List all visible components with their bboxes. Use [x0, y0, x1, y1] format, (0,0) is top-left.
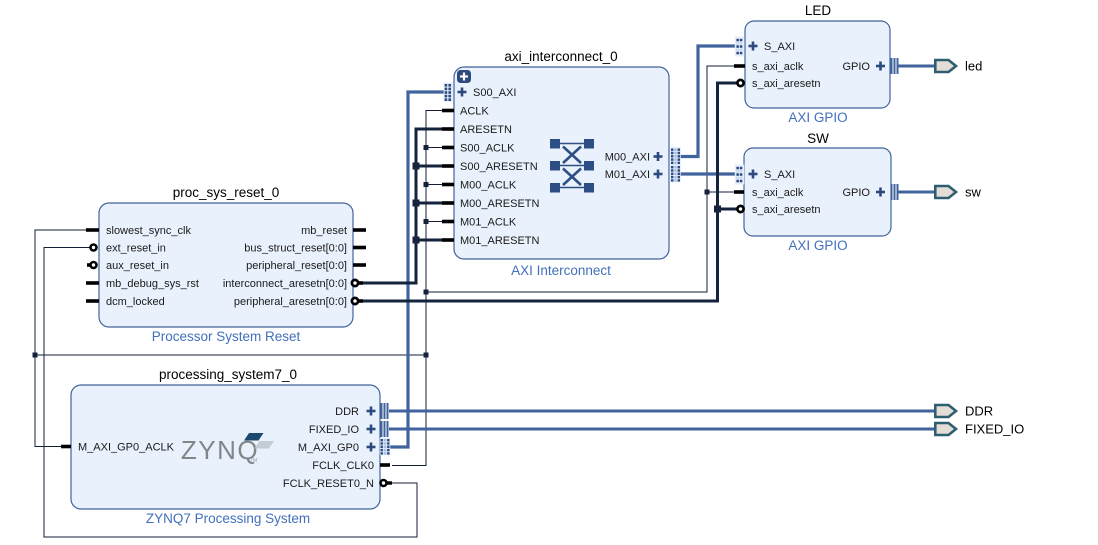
port M01_AXI [605, 165, 681, 182]
port LED GPIO [842, 58, 897, 74]
port S00_ACLK [442, 143, 515, 155]
wire FCLK_CLK0 clock net main run [35, 66, 738, 466]
svg-text:AXI GPIO: AXI GPIO [788, 110, 847, 125]
junction aresetn M01_ARESETN [413, 237, 420, 244]
svg-text:GPIO: GPIO [842, 187, 870, 199]
svg-text:FIXED_IO: FIXED_IO [965, 422, 1024, 437]
wire M_AXI_GP0 to S00_AXI interface [390, 92, 446, 447]
svg-text:FIXED_IO: FIXED_IO [309, 424, 360, 436]
block proc_sys_reset_0 [99, 185, 353, 344]
junction aresetn S00_ARESETN [413, 163, 420, 170]
svg-text:sw: sw [965, 185, 982, 200]
svg-text:ARESETN: ARESETN [460, 124, 512, 136]
port LED S_AXI [735, 37, 795, 57]
port interconnect_aresetn[0:0] [223, 278, 363, 290]
expand button [457, 70, 471, 83]
svg-text:GPIO: GPIO [842, 61, 870, 73]
port bus_struct_reset[0:0] [244, 243, 366, 255]
external port sw [935, 185, 981, 200]
svg-text:AXI Interconnect: AXI Interconnect [511, 263, 611, 278]
svg-text:FCLK_CLK0: FCLK_CLK0 [312, 460, 374, 472]
svg-text:s_axi_aclk: s_axi_aclk [752, 187, 804, 199]
junction clk M01_ACLK [424, 219, 429, 224]
port SW s_axi_aresetn [737, 204, 820, 216]
port M00_ARESETN [442, 198, 540, 210]
port FIXED_IO [309, 421, 388, 437]
svg-text:M00_AXI: M00_AXI [605, 152, 650, 164]
junction aresetn M00_ARESETN [413, 200, 420, 207]
svg-text:mb_debug_sys_rst: mb_debug_sys_rst [106, 278, 199, 290]
block SW [744, 131, 891, 253]
port SW GPIO [842, 184, 897, 200]
svg-text:M_AXI_GP0: M_AXI_GP0 [298, 442, 359, 454]
svg-text:ext_reset_in: ext_reset_in [106, 243, 166, 255]
block processing_system7_0 [71, 367, 380, 526]
port LED s_axi_aresetn [737, 78, 820, 90]
block LED [745, 3, 890, 125]
svg-text:s_axi_aresetn: s_axi_aresetn [752, 78, 821, 90]
svg-text:peripheral_aresetn[0:0]: peripheral_aresetn[0:0] [234, 296, 347, 308]
svg-text:led: led [965, 59, 982, 74]
wire FCLK_RESET0_N to ext_reset_in [44, 248, 417, 538]
wire M00_AXI to LED S_AXI interface [680, 46, 737, 157]
port FCLK_RESET0_N [283, 478, 392, 490]
port SW s_axi_aclk [734, 187, 804, 199]
svg-text:dcm_locked: dcm_locked [106, 296, 165, 308]
svg-text:M01_ARESETN: M01_ARESETN [460, 235, 540, 247]
wire interconnect_aresetn net [360, 129, 448, 283]
svg-text:bus_struct_reset[0:0]: bus_struct_reset[0:0] [244, 243, 347, 255]
port M01_ACLK [442, 217, 517, 229]
crossbar icon [550, 139, 594, 193]
junction aresetn SW s_axi_aresetn [714, 206, 721, 213]
svg-text:ZYNQ7 Processing System: ZYNQ7 Processing System [146, 511, 310, 526]
port M_AXI_GP0 [298, 438, 390, 455]
port ARESETN [442, 124, 512, 136]
port DDR [335, 403, 387, 419]
port SW S_AXI [735, 165, 795, 185]
svg-text:M00_ACLK: M00_ACLK [460, 180, 517, 192]
svg-text:s_axi_aresetn: s_axi_aresetn [752, 204, 821, 216]
junction clk branch left [424, 353, 429, 358]
svg-text:s_axi_aclk: s_axi_aclk [752, 61, 804, 73]
svg-text:LED: LED [805, 3, 832, 18]
wire DDR interface [389, 410, 934, 413]
junction clk slowest_sync_clk column [33, 353, 38, 358]
svg-text:processing_system7_0: processing_system7_0 [159, 367, 297, 382]
svg-text:aux_reset_in: aux_reset_in [106, 260, 169, 272]
wire FIXED_IO interface [389, 428, 934, 431]
block axi_interconnect_0 [454, 49, 669, 278]
svg-text:mb_reset: mb_reset [301, 225, 347, 237]
svg-text:axi_interconnect_0: axi_interconnect_0 [504, 49, 617, 64]
port FCLK_CLK0 [312, 460, 390, 472]
wire LED GPIO out [898, 65, 934, 68]
port S00_AXI [444, 83, 517, 102]
port dcm_locked [86, 296, 165, 308]
svg-text:M00_ARESETN: M00_ARESETN [460, 198, 540, 210]
port mb_debug_sys_rst [86, 278, 199, 290]
port mb_reset [301, 225, 366, 237]
svg-text:DDR: DDR [335, 406, 359, 418]
external port FIXED_IO [935, 422, 1024, 437]
port S00_ARESETN [442, 161, 538, 173]
wire peripheral_aresetn net [360, 83, 737, 301]
svg-text:FCLK_RESET0_N: FCLK_RESET0_N [283, 478, 374, 490]
port ACLK [442, 106, 489, 118]
svg-text:M01_AXI: M01_AXI [605, 169, 650, 181]
svg-text:slowest_sync_clk: slowest_sync_clk [106, 225, 191, 237]
port aux_reset_in [87, 260, 169, 272]
port slowest_sync_clk [86, 225, 191, 237]
svg-text:DDR: DDR [965, 404, 993, 419]
svg-text:S00_ARESETN: S00_ARESETN [460, 161, 538, 173]
external port DDR [935, 404, 993, 419]
port peripheral_aresetn[0:0] [234, 296, 363, 308]
svg-text:interconnect_aresetn[0:0]: interconnect_aresetn[0:0] [223, 278, 347, 290]
svg-text:S_AXI: S_AXI [764, 41, 795, 53]
port M00_ACLK [442, 180, 517, 192]
port ext_reset_in [91, 243, 166, 255]
port peripheral_reset[0:0] [246, 260, 366, 272]
svg-text:peripheral_reset[0:0]: peripheral_reset[0:0] [246, 260, 347, 272]
wire M01_AXI to SW S_AXI interface [680, 172, 737, 175]
port LED s_axi_aclk [734, 61, 804, 73]
svg-text:proc_sys_reset_0: proc_sys_reset_0 [173, 185, 280, 200]
svg-text:S00_ACLK: S00_ACLK [460, 143, 515, 155]
svg-text:SW: SW [807, 131, 829, 146]
svg-text:M01_ACLK: M01_ACLK [460, 217, 517, 229]
junction clk M00_ACLK [424, 182, 429, 187]
svg-text:AXI GPIO: AXI GPIO [788, 238, 847, 253]
zynq logo [181, 433, 274, 465]
junction clk branch right [424, 290, 429, 295]
svg-text:M_AXI_GP0_ACLK: M_AXI_GP0_ACLK [78, 442, 175, 454]
svg-text:S_AXI: S_AXI [764, 169, 795, 181]
port M_AXI_GP0_ACLK [61, 442, 175, 454]
wire SW GPIO out [898, 191, 934, 194]
external port led [935, 59, 982, 74]
port M00_AXI [605, 147, 681, 164]
junction clk S00_ACLK [424, 145, 429, 150]
junction clk SW s_axi_aclk [705, 190, 710, 195]
svg-text:TM: TM [250, 458, 257, 464]
svg-text:ACLK: ACLK [460, 106, 489, 118]
svg-text:S00_AXI: S00_AXI [473, 87, 516, 99]
port M01_ARESETN [442, 235, 540, 247]
svg-text:Processor System Reset: Processor System Reset [152, 329, 301, 344]
